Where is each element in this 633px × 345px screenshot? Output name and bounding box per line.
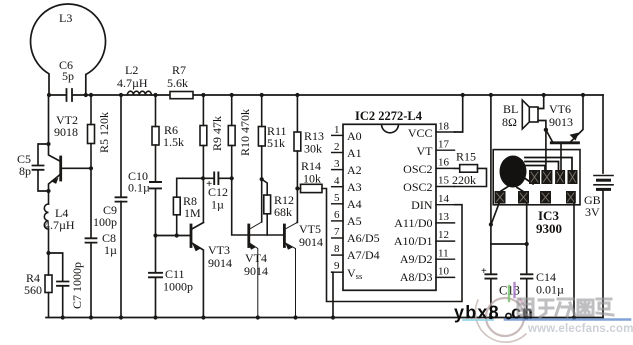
wire speaker top to rail [538, 95, 544, 109]
capacitor C14 [521, 274, 532, 278]
node C13 rail [489, 93, 493, 97]
svg-text:0.01µ: 0.01µ [536, 283, 564, 297]
watermark color specks [463, 283, 524, 320]
svg-text:16: 16 [438, 157, 450, 169]
IC3 pad cross marks [497, 172, 576, 202]
node C7 ground [61, 315, 65, 319]
svg-text:14: 14 [438, 193, 450, 205]
resistor R7 [170, 92, 193, 99]
node pad4 ground [572, 315, 576, 319]
node base-top junction [46, 142, 50, 146]
resistor R11 [258, 95, 265, 222]
IC3 chip blob [500, 156, 527, 188]
emitter arrow VT3 [193, 244, 201, 251]
wire VT3 base lead [156, 235, 192, 237]
svg-text:11: 11 [438, 248, 449, 260]
node VT6 collector junction [544, 128, 548, 132]
node R10 rail [230, 93, 234, 97]
IC3 pad row lower [495, 191, 576, 204]
wire pad1 to C13 node [492, 204, 499, 223]
emitter arrow VT4 [248, 243, 256, 250]
node C12/R8/collector junction [201, 176, 205, 180]
svg-text:8p: 8p [19, 164, 31, 178]
inductor L4 [44, 191, 48, 253]
resistor R14 [297, 184, 462, 301]
svg-text:9014: 9014 [244, 264, 268, 278]
node VT2 emitter junction [46, 189, 50, 193]
capacitor C5 [33, 144, 49, 191]
svg-text:9014: 9014 [299, 235, 323, 249]
watermark blue baseline [505, 318, 630, 321]
svg-text:R5 120k: R5 120k [97, 112, 111, 153]
node C14 ground [525, 315, 529, 319]
svg-text:0.1µ: 0.1µ [128, 181, 150, 195]
svg-text:R7: R7 [172, 63, 186, 77]
inductor L2 [127, 91, 151, 95]
svg-text:1µ: 1µ [104, 243, 117, 257]
svg-text:17: 17 [438, 139, 450, 151]
node VCC rail [461, 93, 465, 97]
pin 12 A10/D1 [436, 240, 455, 242]
wire pad4 ground drop [573, 204, 575, 318]
node R11/R12 junction [260, 177, 264, 181]
svg-text:C7 1000p: C7 1000p [70, 262, 84, 309]
node VT5 emitter ground [293, 315, 297, 319]
svg-text:2: 2 [334, 141, 340, 153]
svg-text:10: 10 [438, 266, 450, 278]
svg-text:A10/D1: A10/D1 [394, 234, 433, 248]
pin 1 A0 [332, 134, 343, 136]
pin 2 A1 [332, 152, 343, 154]
svg-text:30k: 30k [304, 142, 322, 156]
svg-text:OSC2: OSC2 [403, 180, 432, 194]
svg-text:+: + [481, 266, 487, 277]
svg-text:A5: A5 [347, 214, 362, 228]
pin 6 A5 [332, 220, 343, 222]
capacitor C13 [485, 225, 496, 318]
capacitor C7 [49, 253, 69, 318]
wire speaker bottom to collector node [538, 121, 546, 130]
svg-text:VT3: VT3 [208, 243, 230, 257]
svg-text:VT: VT [417, 144, 434, 158]
wire right battery branch [602, 95, 604, 318]
wire C13-C14 link [491, 243, 527, 245]
capacitor C9 [116, 95, 127, 318]
node C12 right junction [230, 176, 234, 180]
svg-text:VT5: VT5 [299, 222, 321, 236]
svg-text:100p: 100p [93, 215, 117, 229]
pin 17 VT [436, 149, 455, 151]
svg-text:A4: A4 [347, 197, 362, 211]
node VT3 emitter ground [201, 315, 205, 319]
pin 5 A4 [332, 203, 343, 205]
node VT4 emitter ground [256, 315, 260, 319]
node B (L3 right leg) [84, 93, 88, 97]
node VT6 emitter rail [581, 93, 585, 97]
resistor R9 [200, 95, 207, 223]
node C9 rail [119, 93, 123, 97]
battery GB [594, 176, 613, 190]
svg-text:A2: A2 [347, 163, 362, 177]
node R5 rail [89, 93, 93, 97]
node R9 rail [201, 93, 205, 97]
svg-text:DIN: DIN [411, 198, 433, 212]
node R11 rail [260, 93, 264, 97]
transistor VT3 [191, 223, 203, 318]
svg-text:5.6k: 5.6k [167, 76, 188, 90]
svg-text:L2: L2 [125, 63, 138, 77]
wire Vss to ground [332, 272, 333, 317]
node R6 rail [153, 93, 157, 97]
wire C14 branch [526, 204, 528, 318]
emitter arrow VT6 [570, 133, 580, 141]
pin 11 A9/D2 [436, 258, 455, 260]
resistor R6 [152, 95, 159, 182]
svg-text:A9/D2: A9/D2 [400, 252, 433, 266]
svg-text:8Ω: 8Ω [502, 115, 517, 129]
pin 4 A3 [332, 186, 343, 188]
transistor VT5 [284, 223, 297, 318]
svg-text:4: 4 [334, 175, 340, 187]
emitter arrow VT2 [52, 178, 59, 184]
speaker BL [522, 100, 538, 129]
pin 18 VCC [436, 131, 455, 133]
svg-text:ybx8: ybx8 [454, 303, 500, 323]
svg-text:15: 15 [438, 175, 450, 187]
svg-text:68k: 68k [274, 205, 292, 219]
wire VCC riser [455, 95, 463, 132]
node A (antenna/rail junction) [47, 93, 51, 97]
svg-text:1M: 1M [184, 206, 201, 220]
svg-text:R9 47k: R9 47k [210, 116, 224, 151]
capacitor C6 [67, 89, 73, 101]
svg-text:Vss: Vss [347, 266, 362, 281]
pin 3 A2 [332, 169, 343, 171]
svg-text:OSC2: OSC2 [403, 162, 432, 176]
svg-text:R15: R15 [456, 150, 476, 164]
svg-text:4.7µH: 4.7µH [44, 218, 75, 232]
svg-text:1.5k: 1.5k [163, 135, 184, 149]
svg-text:7: 7 [334, 226, 340, 238]
capacitor C11 [149, 236, 162, 318]
resistor R12 [262, 179, 271, 235]
svg-text:220k: 220k [452, 173, 476, 187]
pin 10 A8/D3 [436, 276, 455, 278]
svg-text:5: 5 [334, 192, 340, 204]
svg-text:A6/D5: A6/D5 [347, 231, 380, 245]
resistor R4 [45, 253, 52, 318]
capacitor C10 [150, 182, 161, 236]
svg-text:A3: A3 [347, 180, 362, 194]
svg-text:VCC: VCC [408, 126, 433, 140]
svg-text:10k: 10k [303, 172, 321, 186]
node speaker rail [542, 93, 546, 97]
pin 9 Vss [332, 271, 343, 273]
antenna coil L3 [31, 4, 106, 95]
wire C13 supply drop [490, 95, 492, 225]
resistor R10 [228, 95, 284, 235]
IC3 bond traces [501, 158, 572, 192]
svg-text:www.elecfans.com: www.elecfans.com [527, 323, 633, 335]
svg-text:9018: 9018 [54, 125, 78, 139]
svg-text:13: 13 [438, 211, 450, 223]
node R14 junction [295, 186, 299, 190]
capacitor C12 [203, 173, 232, 185]
svg-text:9014: 9014 [208, 256, 232, 270]
node C13 top junction [489, 222, 493, 226]
transistor VT6 [546, 95, 583, 170]
node Vss ground [331, 315, 335, 319]
wire VT2 base branch [49, 95, 61, 162]
pin 15 OSC2 [436, 186, 455, 188]
watermark circle logo [475, 298, 526, 342]
svg-text:18: 18 [438, 121, 450, 133]
svg-text:A11/D0: A11/D0 [394, 216, 432, 230]
svg-text:A1: A1 [347, 146, 362, 160]
svg-text:3V: 3V [585, 205, 600, 219]
svg-text:560: 560 [24, 283, 42, 297]
node R8 bottom junction [175, 233, 179, 237]
node C11 ground [153, 315, 157, 319]
svg-text:6: 6 [334, 209, 340, 221]
svg-text:A7/D4: A7/D4 [347, 248, 380, 262]
node C9 ground [119, 315, 123, 319]
node C8 ground [89, 315, 93, 319]
svg-text:4.7µH: 4.7µH [117, 76, 148, 90]
transistor VT4 [249, 222, 262, 318]
pin 16 OSC2 [436, 167, 455, 169]
op-amp U1 IC2 2272-L4 body [343, 124, 436, 290]
node C14 link junction [525, 242, 529, 246]
svg-text:3: 3 [334, 158, 340, 170]
svg-text:51k: 51k [267, 136, 285, 150]
svg-text:5p: 5p [62, 69, 74, 83]
capacitor C8 [86, 168, 97, 317]
resistor R8 [173, 178, 203, 235]
IC3 pad row upper [529, 170, 578, 184]
resistor R15 [455, 165, 487, 187]
transistor VT2 [49, 157, 92, 191]
svg-text:9300: 9300 [536, 221, 562, 236]
resistor R13 [294, 95, 301, 223]
svg-text:1: 1 [334, 124, 340, 136]
node VT2 collector junction [89, 166, 93, 170]
resistor R5 [88, 95, 95, 168]
svg-text:12: 12 [438, 229, 449, 241]
pin 13 A11/D0 [436, 222, 455, 224]
svg-text:VT4: VT4 [245, 251, 267, 265]
svg-text:A8/D3: A8/D3 [400, 270, 433, 284]
IC3 module box [493, 150, 580, 205]
pin 14 DIN [436, 204, 455, 206]
wire bottom ground rail [46, 317, 603, 319]
wire top supply rail [49, 94, 603, 96]
node R13 rail [295, 93, 299, 97]
pin 7 A6/D5 [332, 237, 343, 239]
svg-text:8: 8 [334, 243, 340, 255]
svg-text:1000p: 1000p [163, 280, 193, 294]
emitter arrow VT5 [285, 243, 293, 250]
svg-text:9013: 9013 [549, 115, 573, 129]
svg-text:A0: A0 [347, 129, 362, 143]
svg-text:IC2 2272-L4: IC2 2272-L4 [355, 109, 423, 123]
node C13 ground [489, 315, 493, 319]
node C10/C11/R8 junction [153, 233, 157, 237]
svg-text:L3: L3 [59, 11, 72, 25]
node L4/R4/C7 junction [46, 251, 50, 255]
svg-text:R10 470k: R10 470k [238, 109, 252, 156]
svg-text:BL: BL [503, 102, 518, 116]
svg-text:9: 9 [334, 260, 340, 272]
watermark CJK glyph blocks [518, 299, 613, 317]
svg-text:VT6: VT6 [549, 102, 571, 116]
svg-text:1µ: 1µ [211, 198, 224, 212]
pin 8 A7/D4 [332, 254, 343, 256]
